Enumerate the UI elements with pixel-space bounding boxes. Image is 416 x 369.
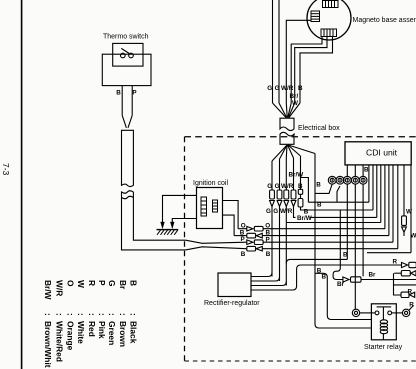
svg-text:Br: Br bbox=[369, 272, 377, 279]
svg-text:R: R bbox=[409, 301, 414, 308]
svg-text:Rectifier-regulator: Rectifier-regulator bbox=[204, 300, 260, 307]
svg-text:O: O bbox=[265, 223, 270, 230]
svg-text:B: B bbox=[317, 202, 322, 209]
svg-text:R: R bbox=[393, 259, 398, 266]
svg-text:W/R: W/R bbox=[281, 183, 294, 190]
svg-text:B: B bbox=[298, 85, 303, 92]
svg-text:W: W bbox=[292, 100, 298, 107]
svg-text:G: G bbox=[275, 85, 280, 92]
svg-text:Ignition coil: Ignition coil bbox=[193, 180, 228, 187]
svg-text:W: W bbox=[411, 233, 416, 240]
svg-text:Br/W: Br/W bbox=[289, 172, 304, 179]
svg-text:P: P bbox=[132, 90, 136, 97]
svg-text:G: G bbox=[267, 85, 272, 92]
svg-text:G: G bbox=[266, 208, 271, 215]
svg-text:B: B bbox=[364, 167, 369, 174]
svg-text:CDI unit: CDI unit bbox=[366, 148, 398, 158]
svg-text:W: W bbox=[406, 209, 412, 216]
svg-text:Magneto base assembly: Magneto base assembly bbox=[353, 17, 416, 24]
svg-text:B: B bbox=[343, 252, 348, 259]
svg-text:Br: Br bbox=[337, 281, 345, 288]
svg-text:Starter relay: Starter relay bbox=[364, 344, 403, 351]
svg-text:G: G bbox=[275, 183, 280, 190]
svg-text:B: B bbox=[266, 251, 271, 258]
svg-text:B: B bbox=[298, 183, 303, 190]
svg-text:O: O bbox=[241, 223, 246, 230]
svg-text:G: G bbox=[267, 183, 272, 190]
svg-text:R: R bbox=[408, 289, 413, 296]
svg-text:G: G bbox=[273, 208, 278, 215]
svg-text:P: P bbox=[241, 236, 245, 243]
svg-text:B: B bbox=[266, 230, 271, 237]
svg-text:B: B bbox=[241, 251, 246, 258]
svg-text:W/R: W/R bbox=[281, 85, 294, 92]
svg-text:Electrical box: Electrical box bbox=[298, 125, 340, 132]
svg-text:Br/W:Brown/Whit: Br/W:Brown/Whit bbox=[43, 280, 53, 368]
svg-text:Thermo switch: Thermo switch bbox=[103, 34, 149, 41]
svg-text:W/R:White/Red: W/R:White/Red bbox=[55, 280, 65, 362]
svg-text:7-3: 7-3 bbox=[1, 163, 11, 176]
svg-text:P: P bbox=[266, 237, 270, 244]
svg-text:W/R: W/R bbox=[280, 208, 293, 215]
svg-text:B: B bbox=[316, 182, 321, 189]
svg-text:Br/W: Br/W bbox=[297, 215, 312, 222]
svg-text:B: B bbox=[116, 90, 121, 97]
svg-text:B: B bbox=[322, 274, 327, 281]
